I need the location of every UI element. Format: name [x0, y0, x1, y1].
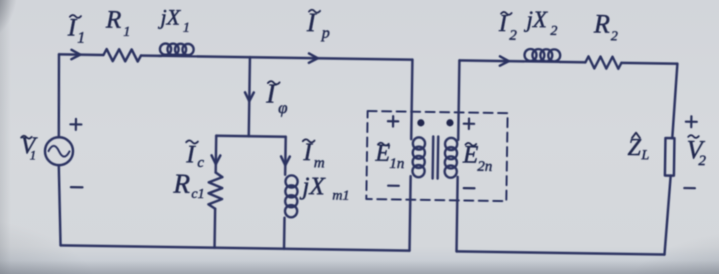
minus sign E1n [388, 185, 399, 187]
load ZL [665, 138, 675, 176]
arrow current Iphi [245, 92, 254, 101]
svg-text:1: 1 [183, 21, 190, 36]
svg-text:R: R [593, 9, 610, 38]
svg-text:L: L [640, 148, 649, 163]
arrow current I1 [71, 50, 80, 60]
arrow current Ip [309, 53, 318, 63]
svg-text:1: 1 [77, 30, 85, 47]
label E1n [374, 141, 404, 172]
minus sign source [71, 186, 82, 188]
svg-text:2: 2 [509, 28, 517, 44]
svg-text:1: 1 [30, 147, 37, 162]
wire primary vertical lower [410, 176, 411, 250]
wire bottom rail primary [61, 245, 410, 250]
svg-text:I: I [498, 11, 508, 37]
wire top rail left segment [59, 53, 103, 56]
resistor R2 [585, 56, 621, 69]
svg-text:jX: jX [523, 7, 548, 32]
label Iphi [265, 79, 288, 118]
transformer secondary winding E2n [445, 138, 458, 178]
svg-text:2: 2 [611, 29, 618, 44]
svg-text:I: I [265, 79, 277, 109]
label Ip [306, 8, 331, 42]
plus sign E2n [464, 118, 475, 129]
svg-text:c1: c1 [191, 187, 204, 202]
svg-text:2: 2 [550, 24, 557, 39]
source V1 [45, 137, 73, 165]
label Rc1 [172, 169, 205, 202]
label ZL [627, 133, 649, 164]
svg-text:E: E [374, 141, 390, 167]
arrow current I2 [500, 56, 509, 66]
resistor R1 [103, 49, 141, 62]
svg-text:E: E [462, 141, 479, 168]
plus sign E1n [388, 116, 399, 127]
arrow current Im [281, 156, 290, 165]
wire secondary top rail segment 1 [459, 59, 523, 62]
wire shunt branch vertical [249, 57, 250, 136]
svg-text:2n: 2n [477, 159, 492, 175]
wire left vertical upper [58, 54, 60, 137]
wire right vertical lower [664, 176, 670, 255]
wire Rc branch upper [214, 136, 217, 173]
wire Rc branch lower [213, 209, 216, 248]
dashed box ideal transformer [366, 111, 507, 201]
wire secondary vertical lower [457, 177, 458, 251]
svg-text:c: c [197, 155, 204, 171]
wire node bar of parallel branches [216, 136, 285, 137]
label jX2 [523, 7, 557, 39]
transformer core [433, 137, 439, 179]
label V2 [686, 135, 707, 169]
wire top rail to primary corner [197, 56, 412, 59]
svg-text:m1: m1 [332, 188, 349, 203]
inductor jX1 [158, 43, 197, 56]
transformer primary winding E1n [412, 137, 425, 177]
label R1 [105, 7, 131, 40]
svg-text:2: 2 [698, 153, 706, 169]
wire right vertical upper [672, 64, 677, 139]
svg-text:p: p [321, 25, 330, 42]
wire between jX2 and R2 [560, 61, 585, 64]
arrow current Ic [211, 155, 220, 164]
label Ic [185, 140, 204, 171]
svg-text:R: R [172, 169, 190, 199]
inductor jXm1 [285, 175, 298, 217]
svg-text:1: 1 [123, 25, 130, 40]
wire left vertical lower [58, 165, 62, 245]
wire bottom rail secondary [457, 251, 665, 254]
svg-text:jX: jX [157, 4, 181, 29]
plus sign V2 [686, 116, 697, 127]
svg-text:m: m [314, 155, 325, 171]
label jXm1 [299, 173, 350, 204]
wire between R1 and jX1 [141, 54, 161, 57]
plus sign source [70, 119, 81, 130]
svg-text:I: I [306, 8, 317, 37]
minus sign V2 [684, 187, 695, 189]
svg-text:R: R [105, 7, 122, 34]
minus sign E2n [464, 187, 475, 189]
wire top rail to right corner [621, 62, 677, 65]
polarity dot primary [417, 119, 424, 126]
wire Xm branch upper [284, 137, 287, 175]
svg-text:I: I [185, 141, 196, 168]
resistor Rc1 [208, 172, 222, 208]
label I2 [498, 11, 518, 44]
label E2n [462, 141, 493, 174]
svg-text:jX: jX [299, 173, 326, 200]
wire Xm branch lower [283, 218, 286, 249]
polarity dot secondary [446, 119, 453, 126]
svg-text:1n: 1n [389, 156, 404, 172]
svg-text:Z: Z [627, 135, 641, 161]
label Im [302, 139, 325, 171]
label V1 [20, 133, 37, 162]
wire secondary vertical upper [458, 60, 459, 139]
label R2 [593, 9, 619, 44]
wire primary vertical upper [411, 60, 412, 139]
svg-text:φ: φ [278, 98, 288, 117]
inductor jX2 [524, 49, 561, 62]
label jX1 [157, 4, 190, 35]
label I1 [67, 14, 86, 46]
